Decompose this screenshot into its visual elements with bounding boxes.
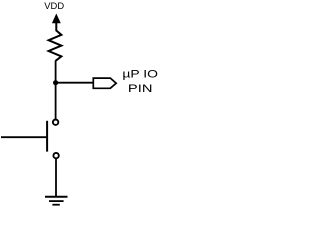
pin label µP IO PIN	[122, 69, 158, 95]
wire gate input	[1, 136, 47, 138]
svg-text:µP IO: µP IO	[122, 69, 158, 81]
resistor R1 (pull-up)	[49, 31, 62, 61]
svg-text:VDD: VDD	[44, 0, 64, 11]
junction node	[53, 80, 58, 85]
pin symbol (I/O port)	[93, 78, 116, 88]
power symbol VDD arrow	[52, 14, 61, 32]
transistor Q1 gate bar	[46, 121, 48, 152]
wire resistor to drain	[55, 61, 57, 119]
transistor Q1 drain contact	[53, 120, 58, 125]
wire junction to pin	[56, 82, 94, 84]
ground symbol	[45, 197, 68, 205]
transistor Q1 source contact	[53, 153, 58, 158]
svg-text:PIN: PIN	[128, 83, 153, 95]
wire source to ground	[55, 159, 57, 197]
